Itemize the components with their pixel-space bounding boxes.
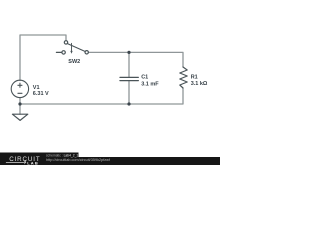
wire bottom horizontal rail [20, 88, 183, 104]
wire capacitor bottom lead [128, 81, 130, 104]
svg-text:3.1 mF: 3.1 mF [141, 81, 159, 87]
wire top rail from V1 to switch pole [20, 35, 66, 81]
svg-text:schematic : Lab4_2_1: schematic : Lab4_2_1 [46, 153, 78, 157]
watermark bar tall section [0, 153, 79, 166]
svg-text:V1: V1 [33, 85, 40, 91]
wire from switch right throw to R1 top corner [88, 52, 183, 67]
resistor R1 [180, 67, 187, 88]
node junction dot at V1 bottom / ground [18, 102, 21, 105]
voltage source V1 [11, 80, 28, 97]
svg-text:3.1 kΩ: 3.1 kΩ [191, 81, 208, 87]
left throw stub wire [56, 51, 61, 53]
svg-text:SW2: SW2 [68, 59, 80, 65]
svg-text:C1: C1 [141, 74, 148, 80]
right throw terminal [85, 51, 88, 54]
pole terminal [64, 41, 67, 44]
watermark bar full-width section [0, 157, 220, 165]
lever [68, 44, 86, 52]
wire capacitor top lead [128, 52, 130, 77]
actuator arrow [71, 43, 73, 51]
left throw terminal [62, 51, 65, 54]
ground [12, 114, 27, 120]
CircuitLab logo bolt [24, 160, 27, 164]
CircuitLab logo strike line [6, 161, 24, 164]
capacitor C1 [120, 77, 138, 80]
switch SW2 [56, 41, 88, 54]
node junction dot at C1 bottom [127, 102, 130, 105]
svg-text:R1: R1 [191, 74, 198, 80]
wire bottom rail [19, 98, 21, 115]
node junction dot at C1 top [127, 51, 130, 54]
svg-text:http://circuitlab.com/circuit/: http://circuitlab.com/circuit/359k2pfzwf [46, 158, 111, 162]
svg-text:6.31 V: 6.31 V [33, 91, 49, 97]
svg-text:LAB: LAB [27, 160, 39, 165]
